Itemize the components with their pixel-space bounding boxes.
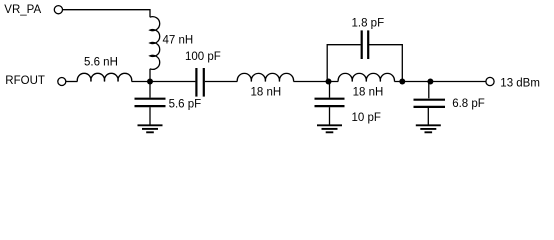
svg-text:6.8 pF: 6.8 pF (452, 98, 485, 110)
svg-text:13 dBm: 13 dBm (500, 77, 540, 89)
svg-text:18 nH: 18 nH (353, 87, 384, 99)
svg-text:1.8 pF: 1.8 pF (352, 18, 385, 30)
svg-text:100 pF: 100 pF (185, 51, 221, 63)
svg-text:5.6 nH: 5.6 nH (84, 57, 118, 69)
svg-text:VR_PA: VR_PA (4, 4, 41, 16)
svg-text:RFOUT: RFOUT (5, 75, 45, 87)
svg-text:18 nH: 18 nH (251, 87, 282, 99)
svg-text:47 nH: 47 nH (163, 34, 194, 46)
svg-text:10 pF: 10 pF (352, 112, 381, 124)
svg-text:5.6 pF: 5.6 pF (169, 99, 202, 111)
